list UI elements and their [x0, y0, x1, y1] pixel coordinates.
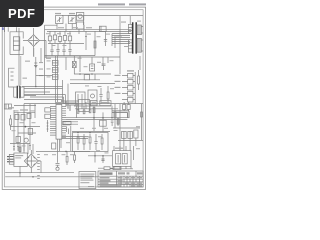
- value labels top section: [46, 21, 141, 47]
- wire module feeds: [114, 146, 134, 160]
- wire heavy bus corner: [112, 111, 129, 118]
- line filter L2: [9, 68, 15, 87]
- capacitor C1: [100, 26, 107, 31]
- wire mid verticals: [36, 57, 68, 104]
- terminal box TB1: [4, 104, 11, 109]
- relay RY5: [88, 90, 97, 104]
- resistor R40: [93, 108, 95, 113]
- capacitor C41: [21, 114, 25, 120]
- capacitor C10: [52, 60, 58, 65]
- resistor R47: [89, 134, 91, 150]
- wire pin bus comb: [62, 101, 79, 111]
- capacitor C14: [99, 88, 102, 104]
- transformer T1 primary winding: [128, 16, 132, 52]
- switch SW1: [76, 22, 83, 29]
- junction: [19, 172, 21, 174]
- resistor R5: [68, 31, 71, 43]
- resistor R61: [74, 151, 76, 163]
- relay RY3: [100, 120, 107, 126]
- label: [23, 78, 28, 79]
- resistor R1: [48, 31, 51, 43]
- wire bundle risers: [112, 16, 120, 74]
- junction: [93, 117, 95, 119]
- PDF badge: [0, 0, 44, 27]
- resistor R46: [83, 134, 85, 150]
- wire long vertical A: [18, 28, 20, 87]
- title block text: [100, 172, 143, 186]
- wire below U1: [58, 139, 62, 151]
- junction: [25, 126, 27, 128]
- wire bottom rail: [36, 150, 90, 152]
- relay RY4: [76, 92, 86, 104]
- wire pin pair lower: [62, 106, 88, 139]
- resistor R51: [141, 112, 143, 117]
- resistor R25: [138, 70, 140, 90]
- transformer T1 core: [133, 22, 137, 53]
- wire upper mid rail: [45, 56, 121, 58]
- resistor R50: [114, 112, 116, 118]
- sheet number label (top right, outside frame): [98, 3, 146, 5]
- tick: [85, 36, 87, 38]
- label U1: [55, 102, 63, 103]
- label bundle: [116, 37, 122, 38]
- wire stubs at relays: [57, 24, 84, 35]
- value labels bottom section: [44, 148, 140, 155]
- junction: [89, 132, 91, 134]
- wire top rail: [62, 15, 143, 17]
- U1 pins right: [62, 107, 66, 138]
- sheet inner border frame: [4, 10, 143, 187]
- resistor R45: [77, 134, 79, 150]
- transformer T1 secondary winding: [137, 25, 143, 52]
- wire long rail to border: [24, 103, 143, 105]
- wire row of snubbers: [45, 44, 96, 56]
- wire bundle bend: [62, 95, 66, 104]
- wire lower cluster rail: [74, 105, 111, 107]
- resistor R6: [94, 41, 96, 48]
- fuse F1: [19, 144, 33, 154]
- capacitor C40: [15, 114, 19, 119]
- label CN1: [127, 70, 134, 71]
- wire mid bundle: [24, 95, 66, 100]
- diode D20: [122, 131, 127, 138]
- capacitor C31: [94, 134, 97, 150]
- bridge rectifier BR1: [23, 28, 46, 56]
- junction: [111, 117, 113, 119]
- wire right verticals low: [115, 104, 120, 150]
- wire AC line top: [45, 25, 58, 95]
- wire left verticals: [14, 104, 35, 151]
- wire drops to rails: [20, 161, 41, 177]
- resistor R4: [63, 31, 66, 43]
- wire right border drop: [141, 104, 143, 140]
- resistor R3: [58, 31, 61, 43]
- notes box: [79, 172, 96, 189]
- line filter L1: [10, 32, 23, 55]
- wire right rows low: [113, 128, 143, 141]
- amplifier block box: [73, 133, 109, 152]
- relay RY1: [56, 16, 64, 24]
- wire drops mid: [84, 16, 106, 56]
- wire T2 outputs: [24, 89, 63, 96]
- junction: [79, 73, 81, 75]
- wire center vertical pair: [56, 56, 58, 104]
- wire drops right low: [124, 138, 136, 151]
- wire upper cluster rail: [70, 83, 115, 85]
- label box A: [91, 100, 98, 105]
- capacitor C21: [45, 114, 51, 118]
- relay RY2: [68, 16, 76, 24]
- wire drops centerlow: [71, 125, 110, 151]
- wire right riser: [139, 56, 141, 70]
- transistor Q1: [24, 138, 28, 142]
- label box B: [100, 101, 111, 106]
- photocoupler PC1: [90, 64, 95, 71]
- transformer T2 core: [17, 86, 20, 98]
- value labels lower section: [12, 110, 141, 146]
- capacitor C13: [102, 64, 106, 70]
- resistor R44: [89, 104, 91, 113]
- resistor R42: [77, 106, 79, 113]
- diode D10: [28, 128, 32, 134]
- diode D5: [34, 63, 37, 68]
- sheet outer border frame: [2, 7, 145, 189]
- wire low rail: [88, 152, 112, 163]
- wire bend: [22, 76, 63, 87]
- capacitor C30: [111, 121, 114, 126]
- connector CN1: [122, 72, 135, 103]
- wire module ground row: [110, 166, 133, 168]
- U1 pin risers: [66, 101, 70, 134]
- junction: [32, 176, 34, 178]
- transformer T2 secondary winding: [21, 87, 24, 97]
- capacitor C22: [52, 143, 56, 149]
- IC U1: [56, 105, 62, 140]
- label left cluster: [8, 107, 28, 110]
- wire mains N: [47, 30, 131, 32]
- varistor ZNR1: [72, 56, 76, 74]
- resistor R31: [10, 115, 12, 130]
- component above titleblock: [98, 167, 121, 170]
- title block: [98, 171, 143, 187]
- transformer T2 primary winding: [14, 87, 17, 97]
- resistor R21: [84, 75, 89, 80]
- label CN1 pins: [115, 75, 121, 94]
- junction: [102, 117, 104, 119]
- capacitor C4: [62, 44, 65, 56]
- wire left rows: [10, 112, 40, 143]
- pin list text: [37, 151, 40, 179]
- resistor R48: [101, 134, 103, 150]
- inline filter FB1: [63, 121, 71, 125]
- capacitor C50: [56, 151, 60, 170]
- capacitor C5: [68, 44, 71, 56]
- diode D24: [127, 102, 130, 111]
- wire verticals center: [94, 106, 118, 132]
- resistor ticks: [13, 146, 31, 150]
- capacitor C12: [52, 74, 58, 79]
- capacitor C51: [101, 159, 104, 161]
- resistor R22: [107, 86, 109, 104]
- capacitor C42: [27, 113, 31, 118]
- wire long vertical B: [20, 56, 22, 85]
- junction: [77, 132, 79, 134]
- label row: [58, 27, 92, 28]
- junction: [102, 155, 104, 157]
- wire bottom rail 1: [5, 172, 74, 174]
- junction: [35, 86, 37, 88]
- wire filter feed: [5, 27, 17, 32]
- wire bridge drops: [34, 41, 46, 63]
- U1 pins left: [50, 107, 56, 136]
- diode D23: [123, 102, 126, 111]
- capacitor C11: [52, 67, 58, 72]
- wire mid bus pair: [66, 118, 129, 125]
- node tick (blue scan mark): [2, 27, 4, 30]
- wire short rail: [14, 105, 36, 107]
- AC inlet J2: [7, 154, 14, 164]
- driver block DR1: [79, 100, 90, 112]
- resistor R2: [53, 31, 56, 43]
- capacitor C6: [104, 40, 107, 42]
- label RY1: [55, 13, 61, 14]
- junction: [91, 73, 93, 75]
- junction: [65, 151, 67, 153]
- output module M1: [113, 151, 131, 167]
- label RY2: [69, 13, 75, 14]
- capacitor C20: [45, 108, 51, 112]
- wire bundle to T1: [112, 34, 130, 44]
- capacitor C3: [56, 44, 59, 56]
- bridge rectifier BR2: [24, 150, 38, 173]
- resistor R43: [83, 106, 85, 114]
- capacitor C2: [50, 44, 53, 56]
- wire mid rail2: [74, 73, 111, 75]
- junction: [94, 155, 96, 157]
- diode D21: [128, 131, 133, 138]
- wire drops from rail: [66, 56, 108, 72]
- diode D22: [134, 130, 138, 138]
- wire rail y108: [75, 108, 118, 110]
- wire mid rail3: [70, 74, 100, 80]
- label column: [25, 22, 126, 77]
- meter M2: [76, 13, 83, 21]
- label module: [115, 148, 123, 149]
- resistor R60: [66, 151, 68, 165]
- wire bottom rail 2: [5, 176, 98, 178]
- wire mains L: [45, 28, 132, 30]
- power module PS1: [14, 153, 27, 166]
- capacitor C43: [16, 136, 20, 142]
- resistor R30: [47, 120, 49, 132]
- value labels middle section: [47, 58, 115, 89]
- resistor R41: [117, 119, 119, 124]
